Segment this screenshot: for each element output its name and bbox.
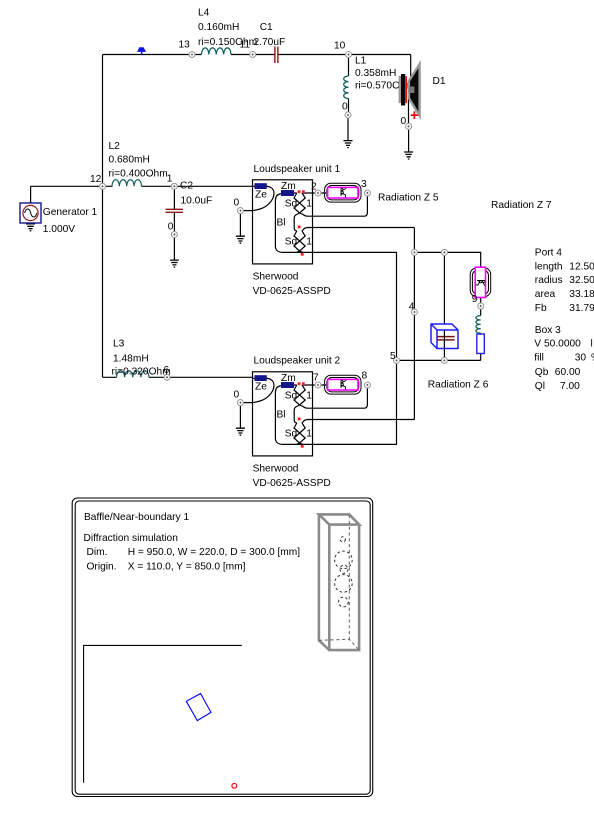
svg-text:radius: radius <box>535 275 563 286</box>
svg-text:7: 7 <box>313 372 319 383</box>
svg-text:0.160mH: 0.160mH <box>198 22 239 33</box>
svg-text:Radiation Z 6: Radiation Z 6 <box>428 379 489 390</box>
svg-text:8: 8 <box>362 371 368 382</box>
svg-text:Qb: Qb <box>535 367 549 378</box>
svg-text:Loudspeaker unit 1: Loudspeaker unit 1 <box>254 164 341 175</box>
svg-text:C2: C2 <box>180 180 193 191</box>
svg-text:1.48mH: 1.48mH <box>113 353 149 364</box>
svg-text:0: 0 <box>168 222 174 233</box>
svg-text:0.358mH: 0.358mH <box>355 68 396 79</box>
svg-text:fill: fill <box>534 352 544 363</box>
svg-text:Ql: Ql <box>535 381 545 392</box>
svg-text:11: 11 <box>240 40 251 51</box>
svg-text:0: 0 <box>342 102 348 113</box>
svg-text:1: 1 <box>167 174 173 185</box>
svg-text:Baffle/Near-boundary 1: Baffle/Near-boundary 1 <box>84 512 189 523</box>
svg-text:X = 110.0, Y = 850.0 [mm]: X = 110.0, Y = 850.0 [mm] <box>128 561 246 572</box>
svg-text:Dim.: Dim. <box>87 547 108 558</box>
svg-text:12: 12 <box>90 174 102 185</box>
svg-text:area: area <box>535 289 556 300</box>
svg-text:D1: D1 <box>433 76 446 87</box>
svg-text:50.0000: 50.0000 <box>544 338 581 349</box>
svg-text:Loudspeaker unit 2: Loudspeaker unit 2 <box>254 355 341 366</box>
svg-text:1.000V: 1.000V <box>43 224 75 235</box>
svg-text:4: 4 <box>409 302 415 313</box>
svg-text:V: V <box>534 338 541 349</box>
svg-text:L2: L2 <box>109 141 121 152</box>
svg-text:Fb: Fb <box>535 303 547 314</box>
svg-text:2: 2 <box>311 181 317 192</box>
svg-text:l: l <box>591 338 593 349</box>
svg-text:5: 5 <box>390 351 396 362</box>
svg-text:10.0uF: 10.0uF <box>181 195 213 206</box>
svg-text:10: 10 <box>334 41 346 52</box>
svg-text:30: 30 <box>575 352 587 363</box>
svg-text:33.18: 33.18 <box>569 289 594 300</box>
svg-text:H = 950.0, W = 220.0, D = 300.: H = 950.0, W = 220.0, D = 300.0 [mm] <box>128 547 301 558</box>
svg-text:12.50: 12.50 <box>569 261 594 272</box>
svg-text:0: 0 <box>401 116 407 127</box>
svg-text:32.50: 32.50 <box>569 275 594 286</box>
svg-text:Port 4: Port 4 <box>535 247 563 258</box>
svg-text:C1: C1 <box>260 22 273 33</box>
svg-text:length: length <box>535 261 563 272</box>
svg-text:L1: L1 <box>355 56 367 67</box>
svg-text:Radiation Z 7: Radiation Z 7 <box>491 200 552 211</box>
svg-text:Diffraction simulation: Diffraction simulation <box>84 533 178 544</box>
svg-text:9: 9 <box>472 294 478 305</box>
svg-text:31.79: 31.79 <box>569 303 594 314</box>
svg-text:13: 13 <box>179 40 191 51</box>
svg-text:3: 3 <box>361 179 367 190</box>
svg-text:L3: L3 <box>113 338 125 349</box>
svg-text:ri=0.400Ohm: ri=0.400Ohm <box>109 168 168 179</box>
svg-text:Origin.: Origin. <box>87 561 117 572</box>
svg-text:Box 3: Box 3 <box>535 325 561 336</box>
svg-text:2.70uF: 2.70uF <box>254 37 286 48</box>
svg-text:7.00: 7.00 <box>560 381 580 392</box>
svg-text:0.680mH: 0.680mH <box>109 154 150 165</box>
svg-text:ri=0.320Ohm: ri=0.320Ohm <box>112 366 171 377</box>
svg-text:Generator 1: Generator 1 <box>43 207 98 218</box>
svg-text:L4: L4 <box>198 8 210 19</box>
svg-text:Radiation Z 5: Radiation Z 5 <box>378 193 439 204</box>
svg-text:60.00: 60.00 <box>555 367 581 378</box>
